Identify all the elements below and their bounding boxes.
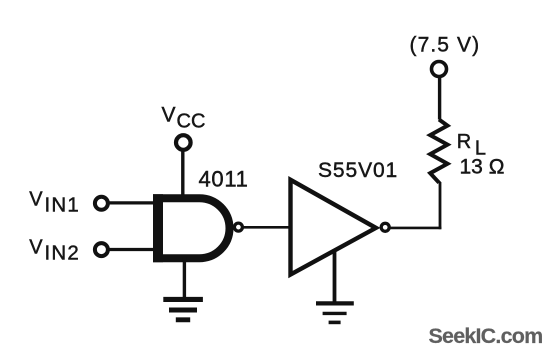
svg-text:13 Ω: 13 Ω xyxy=(460,155,505,178)
label RL xyxy=(457,131,486,160)
terminal VCC xyxy=(176,135,191,150)
svg-text:IN1: IN1 xyxy=(45,193,81,216)
wire buffer output to resistor node xyxy=(390,227,442,230)
wire node up to resistor xyxy=(439,182,442,229)
NAND output bubble xyxy=(234,223,242,231)
wire VIN1 to gate xyxy=(110,201,156,204)
svg-text:4011: 4011 xyxy=(199,167,249,192)
svg-text:CC: CC xyxy=(177,111,206,133)
terminal VIN1 xyxy=(95,197,108,210)
svg-text:IN2: IN2 xyxy=(45,241,81,264)
NAND gate U1 4011 xyxy=(153,194,230,262)
svg-text:R: R xyxy=(457,131,471,153)
wire resistor to supply terminal xyxy=(438,78,441,120)
buffer output bubble xyxy=(381,223,389,231)
label VIN2 xyxy=(29,237,80,265)
svg-text:(7.5 V): (7.5 V) xyxy=(410,33,481,56)
wire buffer ground xyxy=(333,249,337,303)
wire VIN2 to gate xyxy=(110,248,156,251)
ground below NAND xyxy=(163,299,203,319)
svg-text:S55V01: S55V01 xyxy=(318,159,398,182)
label VIN1 xyxy=(29,189,80,217)
wire NAND ground xyxy=(183,257,186,300)
terminal VIN2 xyxy=(95,243,108,256)
resistor RL xyxy=(430,120,447,184)
svg-text:V: V xyxy=(29,237,43,259)
svg-text:V: V xyxy=(162,103,176,126)
wire VCC to gate xyxy=(181,152,184,199)
label VCC xyxy=(162,103,206,132)
terminal 7.5V supply xyxy=(432,62,447,77)
svg-text:V: V xyxy=(29,189,43,211)
ground below buffer xyxy=(316,303,354,322)
buffer U2 S55V01 xyxy=(291,180,376,275)
wire NAND output to buffer xyxy=(243,226,291,229)
svg-text:SeekIC.com: SeekIC.com xyxy=(429,324,543,348)
